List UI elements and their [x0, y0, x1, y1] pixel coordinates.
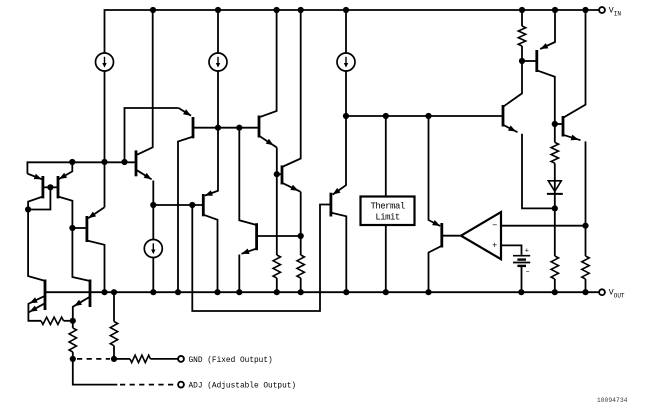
wire Qout2 collector to top rail	[563, 10, 586, 118]
resistor output divider upper	[554, 208, 556, 256]
op-amp error amplifier	[461, 212, 501, 259]
current source I4	[144, 240, 162, 258]
wire Q7 collector to top rail	[136, 10, 153, 155]
wire Qc collector to top rail	[282, 10, 301, 167]
wire thermal limit bottom	[385, 225, 387, 292]
wire Qc emitter	[282, 183, 301, 192]
resistor Qout2 base-emitter	[554, 124, 556, 142]
wire Qb emitter	[259, 136, 277, 148]
node Qc emitter / Qd base	[298, 233, 304, 239]
node top rail junctions	[150, 7, 156, 13]
wire op amp inverting input	[501, 225, 586, 227]
wire Qd emitter to rail	[242, 249, 257, 254]
current source I2	[217, 10, 219, 53]
wire Qtp emitter from top rail	[540, 10, 555, 49]
node Q1/Q2 base	[47, 184, 53, 190]
wire I3 down to drive node	[333, 71, 346, 195]
wire Qc base stub	[277, 173, 282, 175]
node I1 on bias rail	[101, 159, 107, 165]
wire Qout1 collector	[503, 61, 522, 107]
transistor Qa	[192, 117, 195, 138]
wire Q8 base line	[153, 204, 203, 206]
terminal VOUT	[599, 289, 605, 295]
wire base tie to Q1 collector	[28, 187, 50, 209]
current source I1	[96, 53, 114, 71]
transistor Qout1	[502, 105, 505, 127]
node Qout2 base	[552, 121, 558, 127]
resistor R4	[114, 358, 130, 360]
wire Qout2 base stub	[555, 123, 563, 125]
transistor Qout2	[562, 116, 565, 137]
wire Q1-Q2 base bridge	[43, 186, 58, 188]
battery voltage reference	[513, 255, 530, 257]
node feedback on inverting input	[582, 223, 588, 229]
transistor Qc	[281, 165, 284, 184]
node Q6 emitter / R1	[70, 318, 76, 324]
terminal ADJ	[178, 382, 184, 388]
svg-text:10094734: 10094734	[597, 397, 628, 404]
node Q8 base feedback tap	[189, 202, 195, 208]
wire dashed link	[77, 358, 110, 360]
node bias resistor bottom	[519, 58, 525, 64]
svg-text:–: –	[526, 268, 530, 276]
svg-text:ADJ (Adjustable Output): ADJ (Adjustable Output)	[189, 383, 297, 391]
node error amp tap	[425, 113, 431, 119]
wire Q8 collector to rail	[203, 215, 217, 293]
resistor R2	[72, 321, 74, 328]
wire I1 to left bias rail	[104, 71, 106, 207]
wire Q3 base	[72, 227, 87, 229]
node I3 drive node	[343, 113, 349, 119]
node base-collector tie	[25, 206, 31, 212]
transistor Q3	[86, 216, 89, 242]
resistor Qc emitter	[297, 255, 304, 278]
wire left bias rail	[27, 162, 134, 173]
wire Qd base	[257, 235, 301, 237]
svg-text:Limit: Limit	[375, 212, 400, 222]
wire I4 bottom	[152, 258, 154, 293]
wire ADJ dashed	[120, 384, 178, 386]
node diode bottom	[552, 205, 558, 211]
node Q2 emitter on bias rail	[69, 159, 75, 165]
current source I3	[345, 10, 347, 53]
node Q7 emitter	[150, 202, 156, 208]
wire Qtp collector	[537, 70, 555, 124]
wire output drive line	[346, 115, 503, 117]
wire I4 top	[152, 205, 154, 240]
node Qd collector on base line	[236, 125, 242, 131]
node Qa emitter tap on bias rail	[121, 159, 127, 165]
transistor Qtp	[535, 50, 538, 72]
diode zener	[548, 181, 561, 192]
wire Qerr base to op amp	[442, 235, 461, 237]
transistor Q6	[89, 280, 92, 308]
svg-text:+: +	[525, 247, 529, 255]
node Qb emitter / Qc base	[274, 171, 280, 177]
terminal GND	[178, 356, 184, 362]
node R3 bottom	[111, 356, 117, 362]
wire top supply rail from input	[105, 10, 599, 53]
wire ADJ branch	[73, 359, 118, 385]
transistor Qd	[255, 223, 258, 250]
transistor Qb	[258, 116, 261, 138]
transistor Q5	[44, 280, 47, 311]
terminal VIN	[599, 7, 605, 13]
resistor Qb emitter	[273, 255, 280, 278]
wire Qa-Qb base line	[193, 127, 259, 129]
transistor Qerr	[440, 223, 443, 248]
node R2 bottom	[70, 356, 76, 362]
resistor input bias	[521, 10, 523, 26]
wire Q7 emitter down	[136, 170, 152, 180]
wire Qtp base	[522, 60, 537, 62]
wire op amp non-inverting input	[501, 245, 522, 255]
wire Qout1 emitter	[503, 125, 518, 132]
transistor Qsoa	[329, 193, 332, 217]
svg-text:+: +	[492, 241, 497, 251]
node thermal limit tap	[383, 113, 389, 119]
node I2 on base line	[215, 125, 221, 131]
wire battery to rail	[521, 266, 523, 292]
wire Qa collector to ground rail	[178, 137, 193, 293]
svg-text:–: –	[492, 219, 498, 230]
node Q3 base / Q2 collector	[69, 225, 75, 231]
resistor R3	[113, 292, 115, 321]
wire Qout2 emitter	[563, 135, 581, 140]
svg-text:Thermal: Thermal	[370, 201, 404, 211]
wire Qa emitter feed	[125, 108, 179, 162]
wire thermal limit top	[385, 116, 387, 197]
wire Qsoa collector to rail	[331, 213, 346, 293]
wire I2 down to first stage base line	[205, 71, 218, 196]
svg-text:GND (Fixed Output): GND (Fixed Output)	[189, 357, 273, 365]
wire Qsoa base loop	[192, 205, 331, 312]
resistor feedback to VOUT	[582, 256, 589, 279]
wire Qb collector to top rail	[259, 10, 277, 117]
wire Qerr collector to rail	[429, 246, 442, 292]
wire Q3 collector to rail	[87, 241, 105, 293]
wire Qd collector up	[239, 128, 256, 225]
node bottom rail junctions	[101, 289, 107, 295]
transistor Q8	[202, 194, 205, 216]
wire bottom output rail	[45, 291, 599, 293]
transistor Q7	[135, 150, 138, 176]
transistor Q2	[57, 176, 60, 198]
block thermal limit	[361, 197, 415, 226]
transistor Q1	[42, 176, 45, 198]
resistor R1	[41, 317, 64, 324]
